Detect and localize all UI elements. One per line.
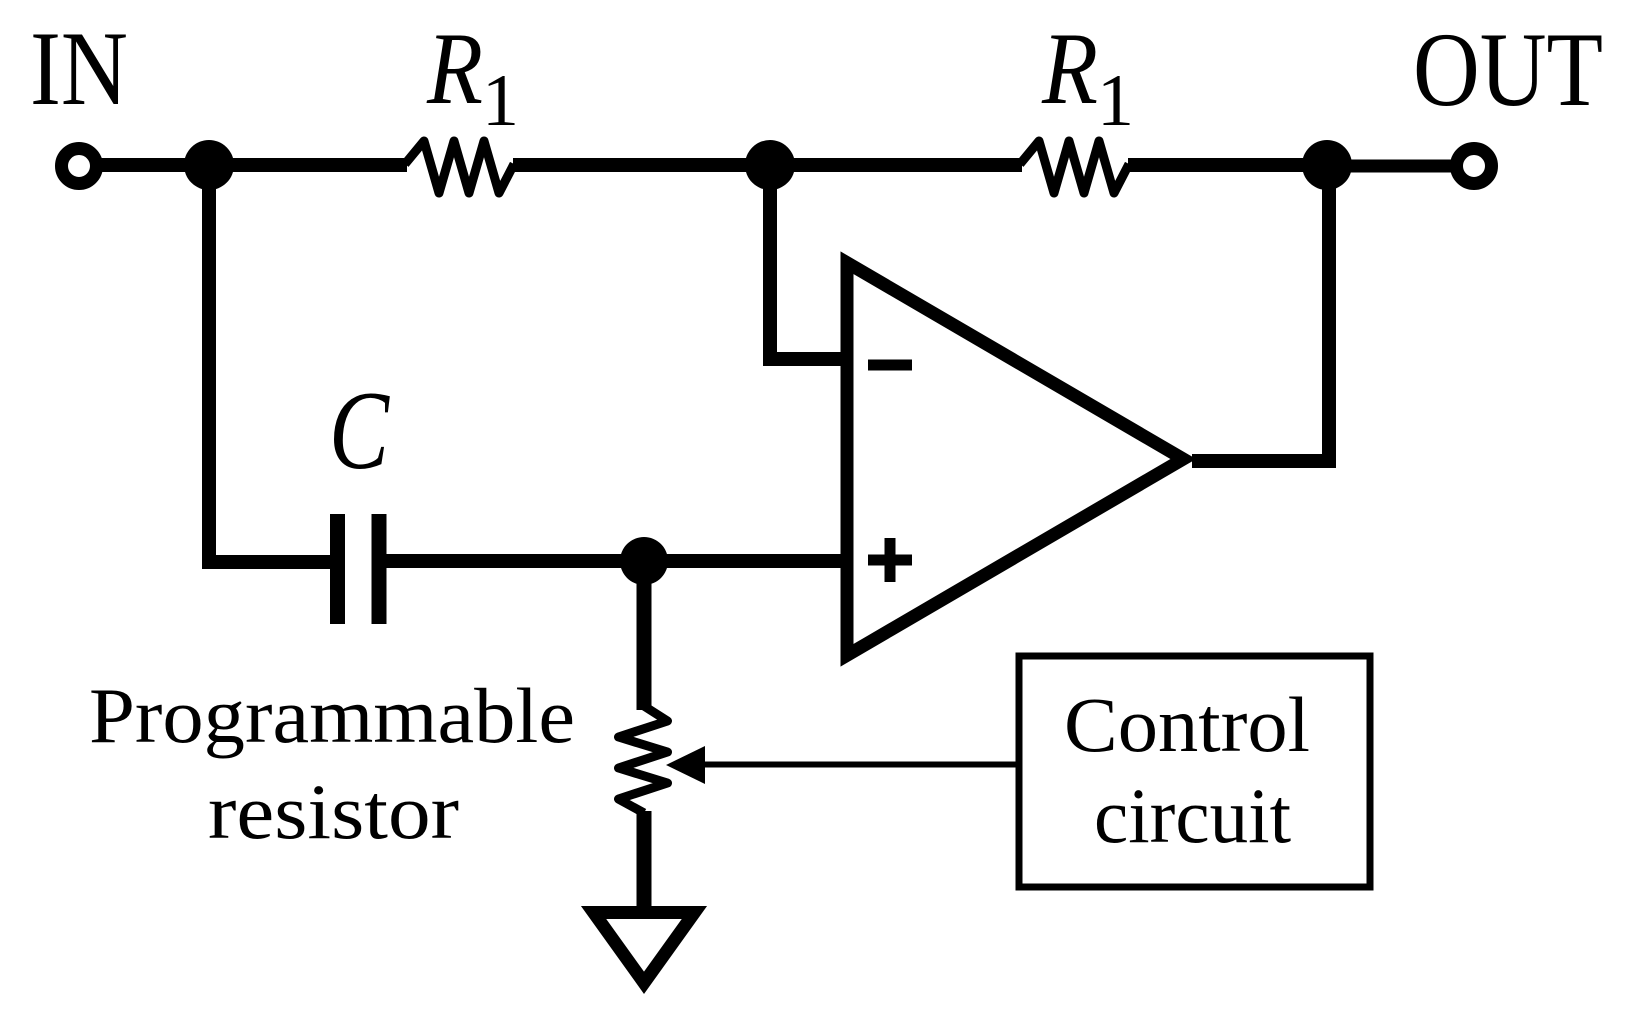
node B (center top junction) — [745, 140, 795, 190]
wire: node C to OUT terminal — [1327, 160, 1452, 173]
ground — [594, 913, 695, 983]
capacitor C plate right — [372, 514, 387, 624]
svg-text:circuit: circuit — [1094, 772, 1291, 859]
node A (input junction) — [184, 140, 234, 190]
svg-text:C: C — [329, 369, 390, 493]
svg-text:Control: Control — [1064, 681, 1310, 768]
svg-text:1: 1 — [482, 60, 519, 142]
wire: R1b to node C — [1128, 158, 1330, 172]
svg-text:resistor: resistor — [208, 768, 459, 855]
wire: node A down to capacitor level — [209, 165, 330, 562]
wire: node D down to programmable resistor — [637, 561, 652, 710]
capacitor C plate left — [330, 514, 345, 624]
resistor R1 (first) — [405, 141, 514, 193]
op-amp plus sign — [868, 555, 912, 566]
svg-text:1: 1 — [1097, 60, 1134, 142]
IN terminal — [62, 149, 97, 184]
wire: IN terminal to resistor R1a — [96, 158, 407, 172]
svg-text:OUT: OUT — [1413, 11, 1603, 128]
control circuit box — [1019, 656, 1370, 887]
node D (+ input junction) — [620, 537, 668, 585]
svg-text:R: R — [1041, 12, 1098, 126]
wire: node B to resistor R1b — [770, 158, 1022, 172]
control arrow head (wiper arrow) — [666, 746, 705, 784]
wire: programmable resistor to ground — [637, 811, 652, 908]
svg-text:Programmable: Programmable — [89, 672, 575, 759]
wire: capacitor to op-amp + input — [386, 554, 850, 568]
wire: node B down to op-amp - input — [770, 165, 850, 359]
programmable resistor (vertical zigzag) — [619, 706, 668, 813]
resistor R1 (second) — [1020, 141, 1129, 193]
op-amp minus sign — [868, 360, 912, 371]
wire: R1a to node B — [513, 158, 772, 172]
op-amp U1 triangle — [847, 263, 1183, 656]
svg-text:IN: IN — [30, 10, 128, 127]
node C (output junction) — [1302, 140, 1352, 190]
wire: op-amp output to node C (right leg) — [1192, 165, 1329, 461]
svg-text:R: R — [426, 12, 483, 126]
OUT terminal — [1457, 149, 1492, 184]
control line: control circuit to wiper — [700, 762, 1019, 768]
